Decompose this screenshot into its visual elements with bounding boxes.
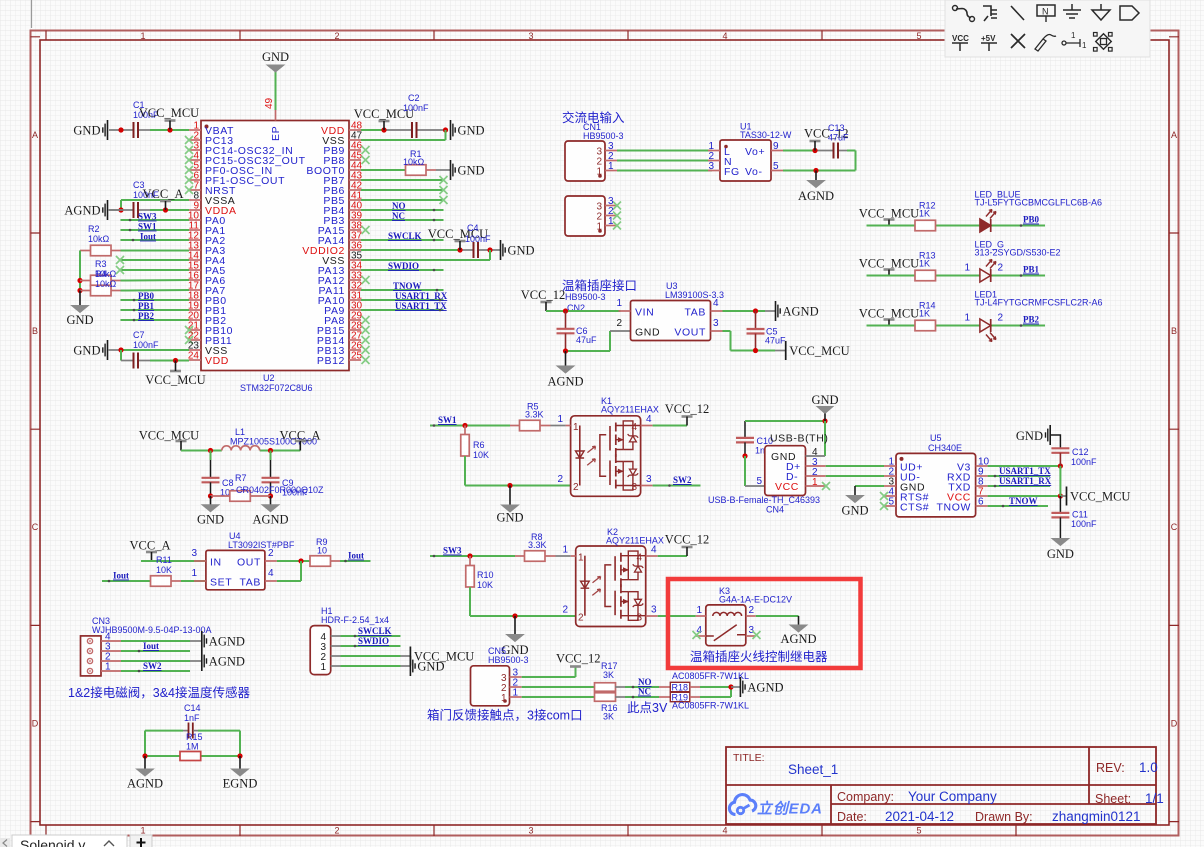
resistor R11 10K — [151, 576, 182, 587]
svg-text:VCC_12: VCC_12 — [665, 402, 709, 416]
ground flag GND (R1) — [451, 160, 485, 180]
svg-text:3: 3 — [191, 548, 197, 559]
wire K3 pin2 to AGND — [756, 615, 799, 617]
toolbar icon wire — [953, 6, 975, 22]
svg-text:3K: 3K — [603, 670, 614, 680]
wire VCC_12 to VIN — [546, 308, 621, 313]
U2 pin 5 PF0-OSC_IN — [185, 161, 273, 178]
svg-text:SW2: SW2 — [143, 661, 162, 671]
svg-text:温箱插座接口: 温箱插座接口 — [562, 278, 637, 293]
net label SWDIO + wire pin34 — [361, 261, 444, 271]
USB connector CN4 USB-B-Female-TH_C46393 — [708, 433, 830, 515]
connector CN1 HB9500-3 — [565, 122, 624, 181]
svg-text:1: 1 — [105, 662, 111, 673]
svg-text:AGND: AGND — [798, 189, 834, 203]
border column ticks — [45, 31, 47, 837]
net label anchor dots — [108, 209, 1023, 699]
ground flag GND (K2) — [501, 616, 528, 657]
svg-text:PB0: PB0 — [1023, 215, 1040, 225]
U2 pin 35 VSS — [322, 251, 362, 268]
U2 pin 3 PC14-OSC32_IN — [185, 141, 293, 158]
ground flag EGND (R15 right) — [223, 756, 258, 791]
power flag VCC_MCU (pin36) — [428, 227, 488, 250]
svg-text:100nF: 100nF — [403, 103, 429, 113]
U2 pin 27 PB14 — [317, 331, 370, 348]
power flag VCC_A (U4) — [130, 539, 171, 562]
capacitor C1 100nF — [133, 100, 159, 138]
power flag VCC_MCU (LED row 1) — [859, 207, 919, 226]
svg-text:NC: NC — [392, 211, 405, 221]
svg-text:Sheet:: Sheet: — [1095, 792, 1131, 806]
svg-text:R7: R7 — [235, 473, 247, 483]
ground flag AGND (CN3 pin4) — [202, 631, 245, 651]
IC U5 CH340E — [880, 433, 990, 517]
svg-text:VCC_12: VCC_12 — [556, 652, 600, 666]
wire R8 to K2 pin1 — [556, 555, 571, 557]
U2 pin 16 PA6 — [188, 271, 226, 288]
svg-text:PB12: PB12 — [317, 355, 345, 367]
svg-text:C4: C4 — [467, 223, 479, 233]
ground flag AGND (TAB) — [776, 301, 819, 321]
resistor R15 1M — [142, 732, 242, 761]
toolbar icon +5V — [981, 34, 997, 51]
svg-text:VCC_12: VCC_12 — [521, 288, 565, 302]
svg-text:R2: R2 — [88, 224, 100, 234]
svg-text:L1: L1 — [235, 427, 245, 437]
svg-text:3: 3 — [528, 31, 533, 41]
svg-text:47uF: 47uF — [576, 335, 597, 345]
svg-text:4: 4 — [713, 298, 719, 309]
svg-text:GND: GND — [1047, 547, 1074, 561]
wire R16 to R19 — [615, 696, 625, 698]
capacitor C11 100nF — [1051, 496, 1097, 539]
resistor R8 3.3K — [515, 532, 556, 561]
capacitor C6 47uF — [557, 311, 598, 351]
resistor R12 1K — [915, 201, 936, 231]
svg-text:PB2: PB2 — [138, 311, 155, 321]
svg-text:A: A — [32, 130, 38, 140]
svg-text:D: D — [32, 719, 39, 729]
svg-text:VCC_A: VCC_A — [143, 187, 184, 201]
power flag VCC_MCU (H1) — [410, 647, 474, 666]
ground flag GND (K1) — [496, 486, 523, 525]
svg-text:AGND: AGND — [252, 513, 288, 527]
toolbar icon bus — [983, 6, 997, 21]
power flag VCC_12 (K1) — [653, 402, 710, 426]
svg-text:AGND: AGND — [209, 635, 245, 649]
power flag VCC_MCU (VOUT) — [786, 341, 850, 360]
net label PB1 + wire pin19 — [121, 301, 190, 311]
wire C1 row pin1 — [109, 127, 189, 132]
resistor R4 10k — [80, 269, 121, 296]
title block texts — [733, 752, 1164, 824]
svg-text:USART1_RX: USART1_RX — [999, 476, 1052, 486]
svg-text:C11: C11 — [1072, 510, 1088, 520]
svg-text:4: 4 — [722, 826, 727, 836]
ground flag AGND (C6) — [547, 351, 583, 389]
svg-text:1: 1 — [1082, 41, 1087, 50]
svg-text:NC: NC — [638, 687, 651, 697]
svg-text:PB1: PB1 — [1023, 265, 1040, 275]
resistor R1 10k — [361, 149, 451, 175]
svg-text:GND: GND — [1016, 429, 1043, 443]
svg-text:R6: R6 — [473, 440, 485, 450]
power flag VCC_MCU (pin48) — [354, 107, 414, 130]
wire pin14 PA4 + X — [116, 256, 189, 264]
wire LED row 2 — [867, 275, 1046, 277]
wire VCC_A to IN — [141, 560, 206, 562]
svg-text:SW1: SW1 — [438, 415, 457, 425]
svg-text:交流电输入: 交流电输入 — [562, 110, 625, 125]
svg-text:10kΩ: 10kΩ — [403, 157, 425, 167]
wire VSSA pin8 — [108, 200, 189, 213]
ground flag AGND (C3 left) — [64, 200, 107, 220]
ground flag GND (U5 GND) — [841, 486, 868, 518]
U2 pin 38 PA15 — [318, 221, 370, 238]
net label SWCLK + wire H1 pin4 — [341, 626, 401, 636]
svg-text:VDD: VDD — [205, 355, 229, 367]
svg-text:LT3092IST#PBF: LT3092IST#PBF — [228, 540, 295, 550]
U2 pin 19 PB1 — [188, 301, 227, 318]
svg-text:VCC_MCU: VCC_MCU — [139, 429, 199, 443]
U2 pin 42 PB6 — [323, 181, 362, 198]
power flag VCC_12 (K2) — [658, 533, 710, 557]
net label NC + wire pin39 — [361, 211, 444, 221]
net label TNOW + wire — [988, 496, 1048, 506]
svg-text:HB9500-3: HB9500-3 — [565, 292, 606, 302]
wire TAB to AGND flag — [723, 308, 776, 313]
svg-text:AQY211EHAX: AQY211EHAX — [601, 405, 659, 415]
svg-text:GND: GND — [841, 504, 868, 518]
U2 pin 28 PB15 — [317, 321, 370, 338]
resistor R9 10 — [310, 537, 340, 566]
wire LED row 3 — [867, 325, 1046, 327]
ground flag AGND (K3) — [780, 616, 816, 646]
power module U1 TAS30-12-W — [708, 122, 792, 182]
wire bottom rail to K1 pin2 — [465, 483, 571, 488]
ground flag AGND (CN3 pin2) — [202, 651, 245, 671]
svg-text:GND: GND — [458, 124, 485, 138]
svg-text:VOUT: VOUT — [674, 327, 706, 339]
U2 pin 32 PA11 — [318, 281, 362, 298]
ground flag GND (C7 left) — [73, 340, 107, 360]
connector CN2 HB9500-3 — [565, 196, 621, 236]
svg-text:VCC_MCU: VCC_MCU — [145, 373, 205, 387]
svg-text:C7: C7 — [133, 330, 145, 340]
U2 pin 30 PA9 — [324, 301, 362, 318]
svg-text:1: 1 — [964, 313, 970, 324]
svg-text:1: 1 — [557, 414, 563, 425]
svg-text:3: 3 — [528, 826, 533, 836]
svg-text:SW2: SW2 — [673, 475, 692, 485]
svg-text:USART1_TX: USART1_TX — [999, 466, 1051, 476]
svg-text:VCC_MCU: VCC_MCU — [789, 344, 849, 358]
U2 pin 18 PB0 — [188, 291, 227, 308]
svg-text:Your Company: Your Company — [908, 789, 997, 804]
wire pin42 + X — [361, 186, 448, 194]
wire C14 right riser — [239, 731, 241, 756]
power flag VCC_MCU (pin1) — [139, 106, 199, 130]
svg-text:3: 3 — [636, 613, 642, 624]
svg-text:OUT: OUT — [237, 557, 261, 569]
svg-text:2: 2 — [616, 318, 622, 329]
svg-text:GND: GND — [73, 124, 100, 138]
wire R18/R19 to AGND — [700, 684, 740, 697]
resistor R5 3.3K — [510, 402, 551, 431]
svg-text:3: 3 — [646, 474, 652, 485]
opto relay K2 AQY211EHAX — [562, 527, 663, 627]
U2 pin 21 PB10 — [185, 321, 233, 338]
svg-text:USB-B-Female-TH_C46393: USB-B-Female-TH_C46393 — [708, 495, 820, 505]
U2 pin 11 PA1 — [189, 221, 226, 238]
header H1 HDR-F-2.54_1x4 — [310, 606, 389, 675]
svg-text:VCC: VCC — [775, 481, 799, 493]
wire VOUT to C5/VCC_MCU — [723, 331, 786, 353]
power flag VCC_MCU (L1 left) — [139, 429, 199, 451]
svg-text:49: 49 — [264, 97, 275, 109]
svg-text:HB9500-3: HB9500-3 — [583, 131, 624, 141]
IC U2 STM32F072C8U6 body — [201, 121, 349, 394]
svg-text:EGND: EGND — [223, 777, 258, 791]
svg-text:VCC: VCC — [952, 34, 969, 43]
U2 pin 13 PA3 — [188, 241, 226, 258]
wires CN4 D+/D- to U5 — [826, 466, 884, 476]
toolbar icon netlabel — [1037, 5, 1055, 22]
svg-text:1: 1 — [1071, 31, 1076, 40]
capacitor C10 1nF — [736, 421, 773, 456]
toolbar icon group — [1094, 33, 1113, 52]
svg-text:1.0: 1.0 — [1139, 760, 1158, 775]
U2 pin 9 VDDA — [189, 201, 237, 218]
svg-text:GND: GND — [197, 513, 224, 527]
svg-text:C13: C13 — [828, 123, 845, 133]
svg-text:CR0402F0R000Q10Z: CR0402F0R000Q10Z — [236, 485, 324, 495]
wire pin23 VSS — [108, 347, 189, 352]
svg-text:AGND: AGND — [547, 375, 583, 389]
svg-text:2: 2 — [749, 605, 755, 616]
svg-text:VCC_A: VCC_A — [130, 539, 171, 553]
svg-text:1: 1 — [812, 477, 818, 488]
svg-text:CN4: CN4 — [766, 505, 784, 515]
svg-text:AQY211EHAX: AQY211EHAX — [606, 536, 664, 546]
svg-text:TAB: TAB — [240, 577, 261, 589]
U2 pin 48 VDD — [321, 121, 363, 138]
wire C6 bottom to U3 GND — [563, 331, 631, 354]
svg-text:AGND: AGND — [209, 655, 245, 669]
svg-text:SWDIO: SWDIO — [358, 636, 389, 646]
U2 pin 41 PB5 — [323, 191, 362, 208]
power flag VCC_12 (U3 VIN) — [521, 288, 565, 311]
svg-text:2: 2 — [578, 613, 584, 624]
svg-text:C: C — [32, 522, 39, 532]
U2 pin 14 PA4 — [188, 251, 226, 268]
svg-text:C8: C8 — [222, 478, 234, 488]
svg-text:R18: R18 — [672, 683, 689, 693]
svg-text:1&2接电磁阀，3&4接温度传感器: 1&2接电磁阀，3&4接温度传感器 — [68, 685, 250, 700]
svg-text:AGND: AGND — [780, 632, 816, 646]
wire R2 to pin13 — [121, 250, 190, 252]
svg-text:2: 2 — [334, 31, 339, 41]
svg-text:47uF: 47uF — [765, 336, 786, 346]
svg-text:NO: NO — [638, 677, 652, 687]
bottom sheet tab — [12, 835, 127, 847]
svg-text:Company:: Company: — [837, 790, 894, 804]
svg-text:VCC_MCU: VCC_MCU — [139, 106, 199, 120]
svg-text:24: 24 — [188, 351, 200, 362]
svg-text:1: 1 — [608, 216, 614, 227]
svg-text:3.3K: 3.3K — [528, 540, 547, 550]
svg-text:TITLE:: TITLE: — [733, 752, 765, 764]
wire pin36 VDDIO2 row — [361, 247, 500, 252]
svg-text:3.3K: 3.3K — [525, 410, 544, 420]
capacitor C12 100nF — [1051, 447, 1097, 467]
svg-text:10K: 10K — [477, 580, 493, 590]
U2 pin 29 PA8 — [324, 311, 369, 328]
U2 pin 45 PB8 — [323, 151, 369, 168]
U2 pin 47 VSS — [322, 131, 362, 148]
svg-text:SW1: SW1 — [138, 222, 157, 232]
svg-text:5: 5 — [888, 497, 894, 508]
wire OUT to R9 — [277, 558, 310, 563]
resistor R19 AC0805FR-7W1KL — [659, 692, 749, 710]
net label TNOW + wire pin32 — [361, 281, 444, 291]
U2 pin 26 PB13 — [317, 341, 370, 358]
svg-text:SWDIO: SWDIO — [388, 261, 419, 271]
IC U4 LT3092IST#PBF — [191, 531, 294, 590]
svg-text:C14: C14 — [184, 703, 201, 713]
resistor R16 3K — [522, 693, 618, 722]
toolbar icon gnd triangle — [1092, 4, 1110, 20]
svg-text:4: 4 — [722, 31, 727, 41]
U2 pin 7 NRST — [185, 181, 236, 198]
svg-text:PB0: PB0 — [138, 291, 155, 301]
svg-text:Iout: Iout — [113, 571, 129, 581]
svg-text:TJ-L5FYTGCBMCGLFLC6B-A6: TJ-L5FYTGCBMCGLFLC6B-A6 — [975, 198, 1103, 208]
svg-text:3: 3 — [713, 318, 719, 329]
power flag VCC_12 (Vo+) — [804, 127, 848, 151]
U2 pin 22 PB11 — [185, 331, 232, 348]
svg-text:TNOW: TNOW — [937, 502, 971, 514]
svg-text:SWCLK: SWCLK — [358, 626, 392, 636]
svg-text:IN: IN — [210, 557, 222, 569]
svg-text:AGND: AGND — [747, 681, 783, 695]
svg-text:TNOW: TNOW — [393, 281, 422, 291]
capacitor C5 47uF — [747, 311, 787, 351]
svg-text:FG: FG — [724, 166, 740, 178]
power flag VCC_MCU (LED row 2) — [859, 257, 919, 276]
capacitor C13 47uF — [828, 123, 849, 159]
ground flag AGND (C9) — [252, 496, 288, 527]
U2 pin 20 PB2 — [188, 311, 227, 328]
net label SWCLK + wire pin37 — [361, 231, 444, 241]
svg-text:SW3: SW3 — [138, 212, 157, 222]
svg-text:5: 5 — [916, 31, 921, 41]
svg-text:N: N — [1042, 7, 1049, 17]
title block frame — [726, 747, 1156, 824]
svg-text:1K: 1K — [919, 209, 930, 219]
svg-text:1: 1 — [191, 568, 197, 579]
svg-text:U2: U2 — [263, 373, 275, 383]
wire Vo+ to C13 — [783, 148, 856, 153]
ground flag GND (C2) — [451, 120, 485, 140]
svg-text:5: 5 — [756, 476, 762, 487]
U2 pin 1 VBAT — [189, 121, 234, 138]
svg-text:10: 10 — [317, 546, 327, 556]
ground flag AGND (Vo-) — [798, 171, 834, 204]
wire R3 to pin16 — [121, 279, 190, 282]
svg-text:4: 4 — [268, 568, 274, 579]
svg-text:AGND: AGND — [127, 777, 163, 791]
U2 pin 8 VSSA — [189, 191, 235, 208]
U2 pin 6 PF1-OSC_OUT — [185, 171, 285, 188]
svg-text:Iout: Iout — [143, 641, 159, 651]
svg-text:1K: 1K — [919, 259, 930, 269]
svg-text:GND: GND — [73, 344, 100, 358]
U2 pin 33 PA12 — [318, 271, 370, 288]
connector CN3 WJHB9500M-9.5-04P-13-00A — [81, 616, 212, 676]
svg-text:1: 1 — [578, 553, 584, 564]
svg-text:Solenoid v: Solenoid v — [20, 837, 85, 847]
U2 pin 43 PB7 — [323, 171, 362, 188]
wire riser R2/R3/R4 — [77, 251, 82, 294]
svg-text:STM32F072C8U6: STM32F072C8U6 — [240, 383, 313, 393]
net label USART1_RX + wire TXD — [988, 476, 1052, 486]
svg-text:25: 25 — [351, 351, 363, 362]
svg-text:5: 5 — [773, 161, 779, 172]
svg-text:HB9500-3: HB9500-3 — [488, 655, 529, 665]
svg-text:PB1: PB1 — [138, 301, 155, 311]
resistor R2 10k — [80, 224, 121, 256]
U2 pin 23 VSS — [188, 341, 228, 358]
svg-text:6: 6 — [978, 497, 984, 508]
net label SW3 + wire pin10 — [121, 212, 190, 222]
wire LED row 1 — [867, 225, 1046, 227]
svg-text:2021-04-12: 2021-04-12 — [885, 809, 954, 824]
power flag VCC_MCU (pin24, below) — [145, 361, 205, 388]
svg-text:1: 1 — [562, 545, 568, 556]
resistor R10 10K — [466, 556, 494, 590]
svg-text:GND: GND — [508, 244, 535, 258]
net label SW3 + wire — [430, 546, 515, 559]
svg-text:VIN: VIN — [635, 307, 654, 319]
svg-text:GND: GND — [811, 393, 838, 407]
svg-text:R3: R3 — [95, 259, 107, 269]
capacitor C8 100nF — [202, 451, 247, 498]
highlight box (red) — [668, 579, 861, 668]
wire pin41 + X — [361, 196, 448, 204]
svg-text:TAS30-12-W: TAS30-12-W — [740, 130, 792, 140]
wires CN1 to U1 — [617, 151, 712, 171]
opto relay K1 AQY211EHAX — [557, 396, 658, 496]
U2 pin 46 PB9 — [323, 141, 369, 158]
ground flag GND (H1) — [410, 656, 444, 676]
svg-text:313-2SYGD/S530-E2: 313-2SYGD/S530-E2 — [975, 248, 1061, 258]
U2 pin 34 PA13 — [318, 261, 363, 278]
LDO U3 LM39100S-3.3 — [616, 281, 724, 341]
wire K2 pin3 to K3 — [658, 615, 696, 617]
wire C13 to Vo- — [783, 151, 856, 174]
svg-text:3: 3 — [749, 625, 755, 636]
U2 pin 2 PC13 — [185, 131, 234, 148]
svg-text:2: 2 — [573, 482, 579, 493]
wire pin48 VDD row — [361, 127, 448, 132]
U2 pin 4 PC15-OSC32_OUT — [185, 151, 306, 168]
svg-text:CH340E: CH340E — [928, 443, 962, 453]
ruler origin line — [31, 0, 33, 28]
resistor R14 1K — [915, 301, 936, 331]
toolbar icon earth ground — [1063, 4, 1081, 18]
svg-text:C: C — [1171, 522, 1178, 532]
